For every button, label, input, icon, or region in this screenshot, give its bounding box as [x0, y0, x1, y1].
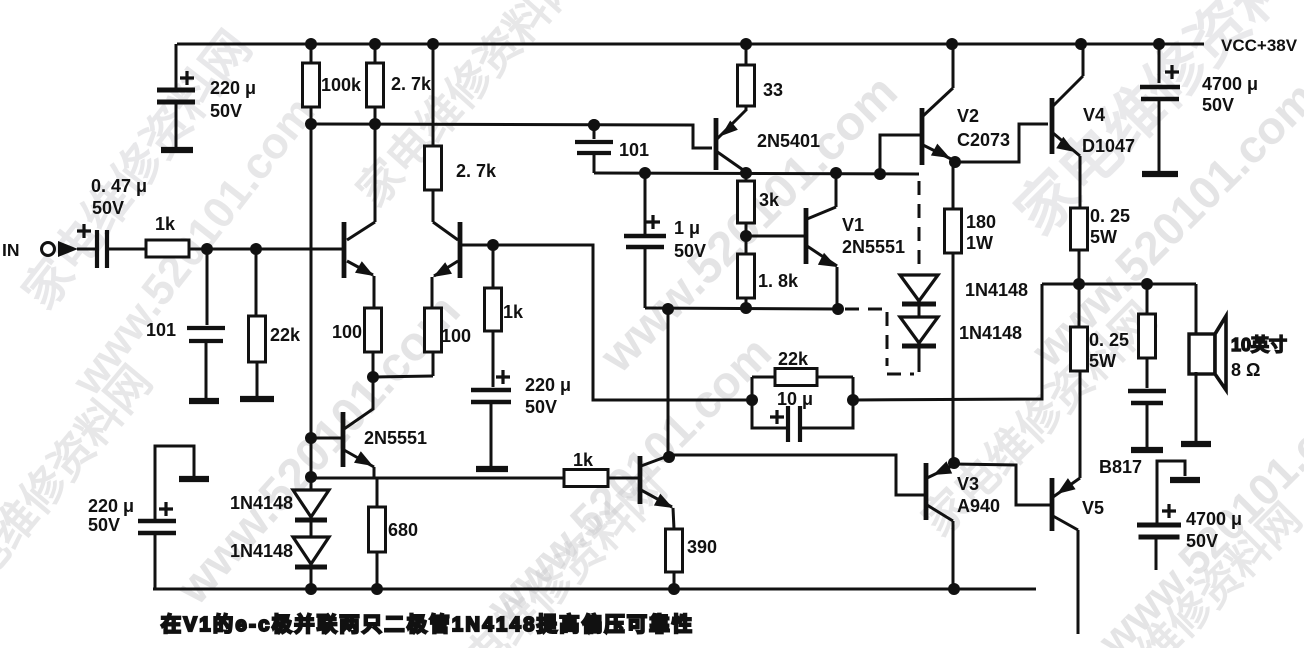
ground top-left cap: [161, 147, 193, 153]
wire emitter row y478: [311, 477, 564, 480]
node dot output x1147: [1141, 278, 1153, 290]
svg-text:V1: V1: [842, 215, 864, 235]
wire V2e down to R180: [952, 162, 955, 209]
wire 100k bottom / bias vertical line: [310, 107, 313, 490]
wire QR base to NFB node: [461, 244, 493, 247]
ground zobel: [1131, 447, 1163, 453]
node dot tail base: [305, 432, 317, 444]
transistor V4 D1047: [1050, 98, 1055, 154]
resistor 1k NFB: [485, 288, 502, 331]
wire 4700uBR bracket: [1157, 461, 1185, 523]
resistor 22k input: [249, 316, 266, 362]
resistor 100 left: [365, 308, 382, 352]
node dot top rail x433: [427, 38, 439, 50]
zobel capacitor: [1128, 389, 1166, 393]
resistor 1k VAS: [564, 470, 608, 487]
wire 2.7k to QL collector: [374, 107, 377, 222]
resistor 100 right: [425, 308, 442, 352]
svg-text:22k: 22k: [270, 325, 301, 345]
node dot diode top: [305, 471, 317, 483]
wire output line y284: [1042, 283, 1196, 286]
node dot top rail x746: [740, 38, 752, 50]
svg-text:1 μ: 1 μ: [674, 218, 700, 238]
svg-text:A940: A940: [957, 496, 1000, 516]
resistor 0.25 5W upper: [1071, 208, 1088, 250]
wire 1.8k bottom to y308: [745, 298, 748, 308]
node dot bottom rail x954: [948, 583, 960, 595]
wire NFB node down to R1k: [492, 245, 495, 288]
capacitor 101 compensation: [588, 119, 600, 131]
ground input C101: [189, 398, 219, 404]
wire between spreader diodes: [918, 304, 921, 317]
svg-text:50V: 50V: [525, 397, 557, 417]
resistor 2.7k second: [432, 44, 435, 146]
wire speaker to ground: [1195, 372, 1198, 441]
wire VAS collector up: [667, 309, 670, 456]
wire node207 down to C101: [206, 249, 209, 325]
svg-text:1N4148: 1N4148: [959, 323, 1022, 343]
resistor 680: [376, 478, 379, 507]
wire 220uBL bottom to rail: [154, 535, 157, 589]
transistor QR diff-pair right 2N5551: [458, 222, 463, 278]
node dot bottom rail x376: [371, 583, 383, 595]
resistor 1.8k: [738, 254, 755, 298]
capacitor 0.47u/50V input: [77, 224, 91, 238]
svg-text:100k: 100k: [321, 75, 362, 95]
svg-text:1k: 1k: [503, 302, 524, 322]
resistor 22k feedback: [775, 369, 817, 386]
svg-text:50V: 50V: [674, 241, 706, 261]
svg-text:C2073: C2073: [957, 130, 1010, 150]
transistor 2N5551 tail: [341, 412, 346, 467]
svg-text:V4: V4: [1083, 105, 1105, 125]
node dot y173 x880: [874, 168, 886, 180]
wire tail base: [311, 437, 341, 440]
node dot NFB base: [487, 239, 499, 251]
svg-text:680: 680: [388, 520, 418, 540]
node dot top rail x1081: [1075, 38, 1087, 50]
ground 4700u BR: [1170, 477, 1200, 483]
transistor V2 C2073: [920, 108, 925, 165]
diode 1N4148 lower left: [293, 537, 329, 564]
svg-text:1N4148: 1N4148: [230, 493, 293, 513]
input terminal circle: [42, 243, 55, 256]
wire V1 collector up: [835, 173, 838, 207]
wire V3e to V5 base: [954, 464, 1050, 505]
transistor QL diff-pair left 2N5551: [342, 222, 347, 278]
node dot y308 VAS: [662, 303, 674, 315]
svg-text:1k: 1k: [573, 450, 594, 470]
transistor 2N5401: [714, 118, 719, 170]
ground 4700u TR: [1142, 171, 1178, 177]
node dot rail2 x375: [369, 118, 381, 130]
node dot y173 x746: [740, 167, 752, 179]
svg-text:IN: IN: [2, 240, 20, 260]
zobel resistor: [1146, 284, 1149, 314]
node dot V3 emitter: [948, 457, 960, 469]
node dot top rail x952: [946, 38, 958, 50]
wire R180 down to V3 node: [952, 253, 955, 463]
node dot y173 x836: [830, 167, 842, 179]
wire QR emitter to R100 right: [431, 277, 434, 308]
node dot rail2 x594: [588, 119, 600, 131]
capacitor 4700u/50V top-right: [1158, 44, 1161, 83]
svg-text:2N5401: 2N5401: [757, 131, 820, 151]
ground input R22k: [240, 396, 274, 402]
wire R390 to bottom rail: [673, 572, 676, 589]
svg-text:1k: 1k: [155, 214, 176, 234]
node dot y308 1.8k: [740, 302, 752, 314]
svg-text:390: 390: [687, 537, 717, 557]
svg-text:V2: V2: [957, 106, 979, 126]
diode 1N4148 upper left: [293, 490, 329, 517]
transistor V5 B817: [1050, 478, 1055, 531]
svg-text:0. 25: 0. 25: [1090, 206, 1130, 226]
wire dashed spreader top: [918, 181, 921, 270]
svg-text:101: 101: [146, 320, 176, 340]
svg-text:220 μ: 220 μ: [210, 78, 256, 98]
svg-text:220 μ: 220 μ: [88, 496, 134, 516]
ground speaker: [1181, 441, 1211, 447]
svg-text:10英寸: 10英寸: [1231, 334, 1287, 355]
wire 2.7k2 to QR collector: [432, 190, 435, 222]
wire lower diode to bottom rail: [310, 566, 313, 589]
svg-text:D1047: D1047: [1082, 136, 1135, 156]
wire R1k to base QL: [189, 248, 342, 251]
wire V4 collector to VCC: [1082, 44, 1085, 76]
capacitor 10u feedback: [770, 410, 784, 424]
wire V1 emitter down: [836, 267, 839, 309]
svg-text:8 Ω: 8 Ω: [1231, 360, 1260, 380]
capacitor 220u/50V NFB: [496, 370, 510, 384]
input arrow: [58, 241, 78, 257]
resistor 1k input: [146, 240, 189, 257]
node dot top rail x1159: [1153, 38, 1165, 50]
node dot bias rail2: [305, 118, 317, 130]
wire R1k NFB to C220u: [492, 331, 495, 387]
node dot bottom rail x311: [305, 583, 317, 595]
svg-text:1W: 1W: [966, 233, 993, 253]
wire V4 emitter to R0.25: [1079, 156, 1082, 208]
wire R0.25 lower to V5 collector: [1079, 371, 1082, 478]
node dot V2 emitter: [949, 156, 961, 168]
resistor 3k: [745, 173, 748, 181]
wire 3k to 1.8k: [745, 223, 748, 254]
node dot y308 V1e: [832, 303, 844, 315]
svg-text:50V: 50V: [1202, 95, 1234, 115]
svg-text:B817: B817: [1099, 457, 1142, 477]
wire node256 down to R22k: [255, 249, 258, 316]
resistor 390: [666, 529, 683, 572]
svg-text:50V: 50V: [210, 101, 242, 121]
node dot y173 1u: [639, 167, 651, 179]
node dot VAS collector: [663, 451, 675, 463]
wire tail node join: [373, 376, 433, 377]
svg-text:V5: V5: [1082, 498, 1104, 518]
resistor 100k: [310, 44, 313, 63]
ground NFB cap: [476, 466, 508, 472]
wire zobel R to C: [1146, 358, 1149, 388]
svg-text:3k: 3k: [759, 190, 780, 210]
diode 1N4148 spreader lower: [900, 317, 938, 343]
wire V2 base from y173: [880, 135, 920, 174]
wire R100L to tail node: [372, 352, 375, 377]
svg-text:50V: 50V: [88, 515, 120, 535]
wire V2e to V4 base: [955, 124, 1048, 162]
node dot V1 base: [740, 230, 752, 242]
speaker 10inch 8ohm: [1189, 334, 1215, 374]
svg-text:50V: 50V: [92, 198, 124, 218]
svg-text:220 μ: 220 μ: [525, 375, 571, 395]
transistor V3 A940: [924, 463, 929, 520]
svg-text:V3: V3: [957, 474, 979, 494]
wire line y173: [594, 173, 919, 174]
svg-text:2. 7k: 2. 7k: [391, 74, 432, 94]
svg-text:50V: 50V: [1186, 531, 1218, 551]
svg-text:4700 μ: 4700 μ: [1186, 509, 1242, 529]
wire 680 to bottom rail: [376, 552, 379, 589]
svg-text:在V1的e-c极并联两只二极管1N4148提高偏压可靠性: 在V1的e-c极并联两只二极管1N4148提高偏压可靠性: [161, 612, 694, 636]
node dot feedback left: [746, 394, 758, 406]
svg-text:10 μ: 10 μ: [777, 389, 813, 409]
node dot input x256: [250, 243, 262, 255]
transistor VAS: [638, 456, 643, 504]
wire R100R to tail node: [432, 352, 435, 376]
svg-text:1N4148: 1N4148: [230, 541, 293, 561]
capacitor 220u/50V top-left: [180, 71, 194, 85]
svg-text:2N5551: 2N5551: [364, 428, 427, 448]
wire between left diodes: [310, 519, 313, 537]
svg-text:0. 25: 0. 25: [1089, 330, 1129, 350]
resistor 180 1W: [945, 209, 962, 253]
node dot top rail x375: [369, 38, 381, 50]
svg-text:2. 7k: 2. 7k: [456, 161, 497, 181]
svg-text:22k: 22k: [778, 349, 809, 369]
node dot feedback right: [847, 394, 859, 406]
wire R33 to 2N5401 emitter: [745, 106, 748, 111]
capacitor 220u/50V bottom-left: [159, 502, 173, 516]
wire 2N5401 collector to line y173: [745, 170, 748, 173]
wire C0.47u to R1k: [109, 248, 146, 251]
wire NFB node to feedback line: [493, 245, 752, 400]
transistor V1 2N5551: [804, 208, 809, 264]
wire QL emitter to R100 left: [373, 276, 376, 308]
svg-text:180: 180: [966, 212, 996, 232]
svg-text:5W: 5W: [1089, 351, 1116, 371]
wire dashed V1e to spreader: [845, 308, 887, 311]
svg-text:100: 100: [332, 322, 362, 342]
feedback loop right branch: [800, 377, 853, 428]
node dot top rail x311: [305, 38, 317, 50]
node dot output x1079: [1073, 278, 1085, 290]
svg-text:VCC+38V: VCC+38V: [1221, 36, 1298, 55]
node dot tail: [367, 371, 379, 383]
wire VAS collector to V3 base route: [668, 455, 924, 495]
wire VCC top rail: [177, 43, 1204, 46]
svg-text:5W: 5W: [1090, 227, 1117, 247]
resistor 33: [745, 44, 748, 65]
resistor 0.25 5W lower: [1078, 284, 1081, 327]
svg-text:1. 8k: 1. 8k: [758, 271, 799, 291]
svg-text:4700 μ: 4700 μ: [1202, 74, 1258, 94]
ground 220uBL: [179, 476, 209, 482]
svg-text:1N4148: 1N4148: [965, 280, 1028, 300]
wire input to C0.47u: [77, 248, 95, 251]
svg-text:101: 101: [619, 140, 649, 160]
capacitor 1u/50V: [644, 247, 647, 308]
wire tail emitter down: [373, 467, 376, 478]
wire bottom rail: [153, 588, 1036, 591]
node dot bottom rail x675: [668, 583, 680, 595]
wire R1k-vas to VAS base: [608, 477, 638, 480]
resistor 2.7k first: [374, 44, 377, 63]
wire 22k right to loop corner: [817, 376, 853, 379]
diode 1N4148 spreader upper: [900, 275, 938, 301]
wire VCC left drop to C 220u: [175, 44, 178, 88]
node dot input x207: [201, 243, 213, 255]
wire output to speaker: [1195, 284, 1198, 333]
capacitor 4700u/50V bottom-right: [1162, 504, 1176, 518]
svg-text:2N5551: 2N5551: [842, 237, 905, 257]
svg-text:33: 33: [763, 80, 783, 100]
wire line y308: [645, 308, 838, 309]
capacitor 101 input filter: [187, 326, 225, 330]
wire V2 collector to VCC: [952, 44, 955, 88]
wire V1 base: [746, 235, 804, 238]
wire rail2 bias line to 2N5401 base: [311, 124, 712, 148]
wire feedback to output: [853, 284, 1042, 400]
wire 220uBL top bracket to ground: [155, 446, 194, 519]
wire R0.25 to output line: [1078, 250, 1081, 284]
svg-text:100: 100: [441, 326, 471, 346]
svg-text:0. 47 μ: 0. 47 μ: [91, 176, 147, 196]
wire V3 collector to bottom rail: [952, 521, 955, 589]
feedback loop 22k/10u left branch: [752, 376, 775, 379]
wire V5 emitter down: [1077, 530, 1080, 634]
wire VAS emitter to R390: [673, 508, 674, 529]
